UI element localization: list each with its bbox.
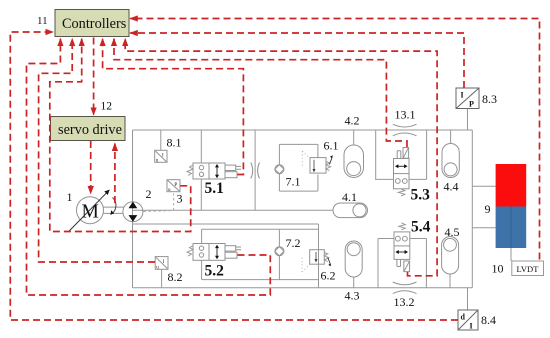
wire: 8.2 stem down — [161, 269, 163, 288]
accumulator 4.1 (horizontal) — [333, 203, 368, 218]
sensor 8.1 — [155, 150, 167, 163]
svg-text:3: 3 — [177, 192, 183, 206]
wire: x=318.5 vertical down to bottom — [318, 224, 320, 288]
svg-text:I: I — [461, 91, 464, 100]
wire: 8.1 stem — [160, 130, 162, 150]
svg-text:13.2: 13.2 — [394, 295, 415, 309]
svg-text:8.4: 8.4 — [481, 313, 496, 327]
wire: 5.3 notch — [376, 130, 427, 179]
wire: sensor 8.3 feedback — [130, 33, 464, 88]
wire: 4.2 stem — [353, 130, 355, 145]
accumulator 4.4 — [442, 144, 459, 178]
piston rod inside cylinder — [510, 207, 512, 249]
svg-text:5.3: 5.3 — [411, 187, 431, 204]
svg-text:13.1: 13.1 — [395, 108, 416, 122]
svg-text:P: P — [174, 183, 177, 188]
motor M1 — [69, 190, 109, 231]
coupling arcs near 5.1 — [251, 163, 260, 179]
accumulator 4.3 — [345, 241, 362, 277]
svg-text:2: 2 — [146, 187, 152, 201]
wire: pump B line y=224 — [133, 223, 319, 225]
svg-text:P: P — [469, 100, 474, 109]
svg-text:M: M — [82, 202, 99, 223]
wire: below valve 5.1 to main line — [200, 179, 202, 210]
svg-text:5.2: 5.2 — [205, 263, 225, 280]
wire: valve 5.4 solenoid — [125, 39, 437, 276]
LVDT box 10 — [512, 261, 544, 276]
rotary coupling 13.1 — [393, 124, 417, 136]
svg-text:10: 10 — [492, 262, 504, 276]
wire: 4.3 stem — [353, 277, 355, 288]
wire: valve 5.1 solenoid — [103, 39, 244, 175]
svg-text:I: I — [162, 154, 164, 159]
wire: 8.4 stem — [467, 288, 469, 310]
svg-text:4.5: 4.5 — [445, 225, 460, 239]
svg-text:8.1: 8.1 — [167, 136, 182, 150]
svg-text:I: I — [163, 260, 165, 265]
svg-text:4.2: 4.2 — [345, 114, 360, 128]
wire: 8.4 feedback to controller left (line 11 side) — [10, 32, 458, 320]
svg-text:d: d — [461, 313, 466, 322]
check valve 7.2 — [275, 247, 284, 256]
valve 5.3 (vertical cartridge) — [394, 148, 410, 197]
svg-text:Controllers: Controllers — [62, 16, 127, 32]
wire: main bottom boundary — [133, 287, 473, 289]
accumulator 4.2 — [344, 145, 364, 178]
wire: valve 5.2 solenoid loop — [27, 39, 271, 295]
wire: cylinder port A — [472, 185, 495, 187]
wire: 7.1 bypass rectangle — [279, 144, 318, 191]
sensor 8.4 (d/I) — [458, 310, 478, 331]
svg-text:8.3: 8.3 — [482, 92, 497, 106]
svg-text:8.2: 8.2 — [168, 270, 183, 284]
rotation arrow on shaft — [111, 198, 116, 215]
wire: lower enclosure bottom — [202, 279, 319, 281]
svg-text:4.3: 4.3 — [345, 289, 360, 303]
relief valve 6.2 — [302, 250, 331, 272]
wire: 8.3 stem — [467, 109, 469, 131]
hydraulic cylinder (blue chamber) — [496, 207, 527, 249]
wire: lower enclosure top — [202, 228, 319, 230]
shaft between motor and pump — [104, 207, 124, 213]
wire: 4.5 stem — [449, 274, 451, 288]
hydraulic cylinder 9 (red chamber) — [496, 164, 527, 207]
wire: 7.2 leg and bottom — [278, 229, 280, 279]
servo drive box (12) — [51, 117, 126, 141]
wire: right edge vertical — [471, 130, 473, 288]
valve 3 (proportional pilot) — [167, 180, 180, 193]
svg-text:servo drive: servo drive — [58, 122, 122, 138]
wire: cylinder port B — [472, 227, 495, 229]
wire: valve 3 signal — [50, 39, 191, 232]
wire: vertical with coupling x=255 — [254, 130, 256, 210]
wire: 4.4 stem — [450, 130, 452, 144]
relief valve 6.1 — [302, 151, 333, 173]
wire: sensor 8.2 feedback — [39, 39, 155, 262]
svg-text:6.2: 6.2 — [321, 269, 336, 283]
wire: main horizontal line to 4.1 — [133, 209, 334, 211]
svg-text:5.1: 5.1 — [205, 180, 224, 197]
GRAY CIRCUIT — [133, 109, 512, 311]
valve 5.1 — [187, 163, 241, 179]
svg-text:4.1: 4.1 — [342, 190, 357, 204]
controller box (11) — [55, 10, 129, 37]
wire: 5.2 enclosure left edge upper — [201, 229, 203, 243]
svg-text:9: 9 — [485, 202, 491, 216]
svg-text:12: 12 — [101, 101, 113, 113]
svg-text:LVDT: LVDT — [517, 264, 540, 274]
pump P2 — [123, 202, 143, 222]
svg-text:5.4: 5.4 — [411, 219, 431, 236]
rotary coupling 13.2 — [393, 282, 417, 294]
svg-text:11: 11 — [37, 15, 48, 27]
dash-dot link pump to valve 3 — [144, 194, 174, 212]
wire: servo drive to motor — [90, 141, 92, 194]
wire: drop to valve 5.1 — [200, 130, 202, 163]
check valve 7.1 — [275, 165, 284, 174]
svg-text:I: I — [470, 322, 473, 331]
wire: controller to servo drive (12) — [93, 38, 95, 115]
valve 5.2 — [187, 244, 241, 261]
svg-text:7.2: 7.2 — [286, 236, 301, 250]
svg-text:1: 1 — [67, 190, 73, 204]
valve 5.4 (vertical cartridge) — [394, 223, 410, 272]
svg-text:7.1: 7.1 — [286, 175, 301, 189]
wire: piston rod to LVDT — [510, 248, 512, 261]
wire: 5.2 drop to lower rail — [201, 260, 203, 279]
svg-text:4.4: 4.4 — [444, 180, 459, 194]
wire: LVDT feedback — [130, 19, 539, 260]
accumulator 4.5 — [442, 237, 459, 275]
wire: shaft speed feedback to servo drive — [114, 144, 116, 204]
sensor 8.3 (I/P) — [456, 88, 479, 109]
wire: 5.4 notch — [378, 239, 426, 288]
wire: valve 5.3 solenoid — [114, 39, 407, 147]
wire: main top boundary — [133, 129, 473, 131]
wire: pump vertical line — [132, 130, 134, 288]
sensor 8.2 — [155, 257, 168, 271]
svg-text:6.1: 6.1 — [324, 139, 339, 153]
